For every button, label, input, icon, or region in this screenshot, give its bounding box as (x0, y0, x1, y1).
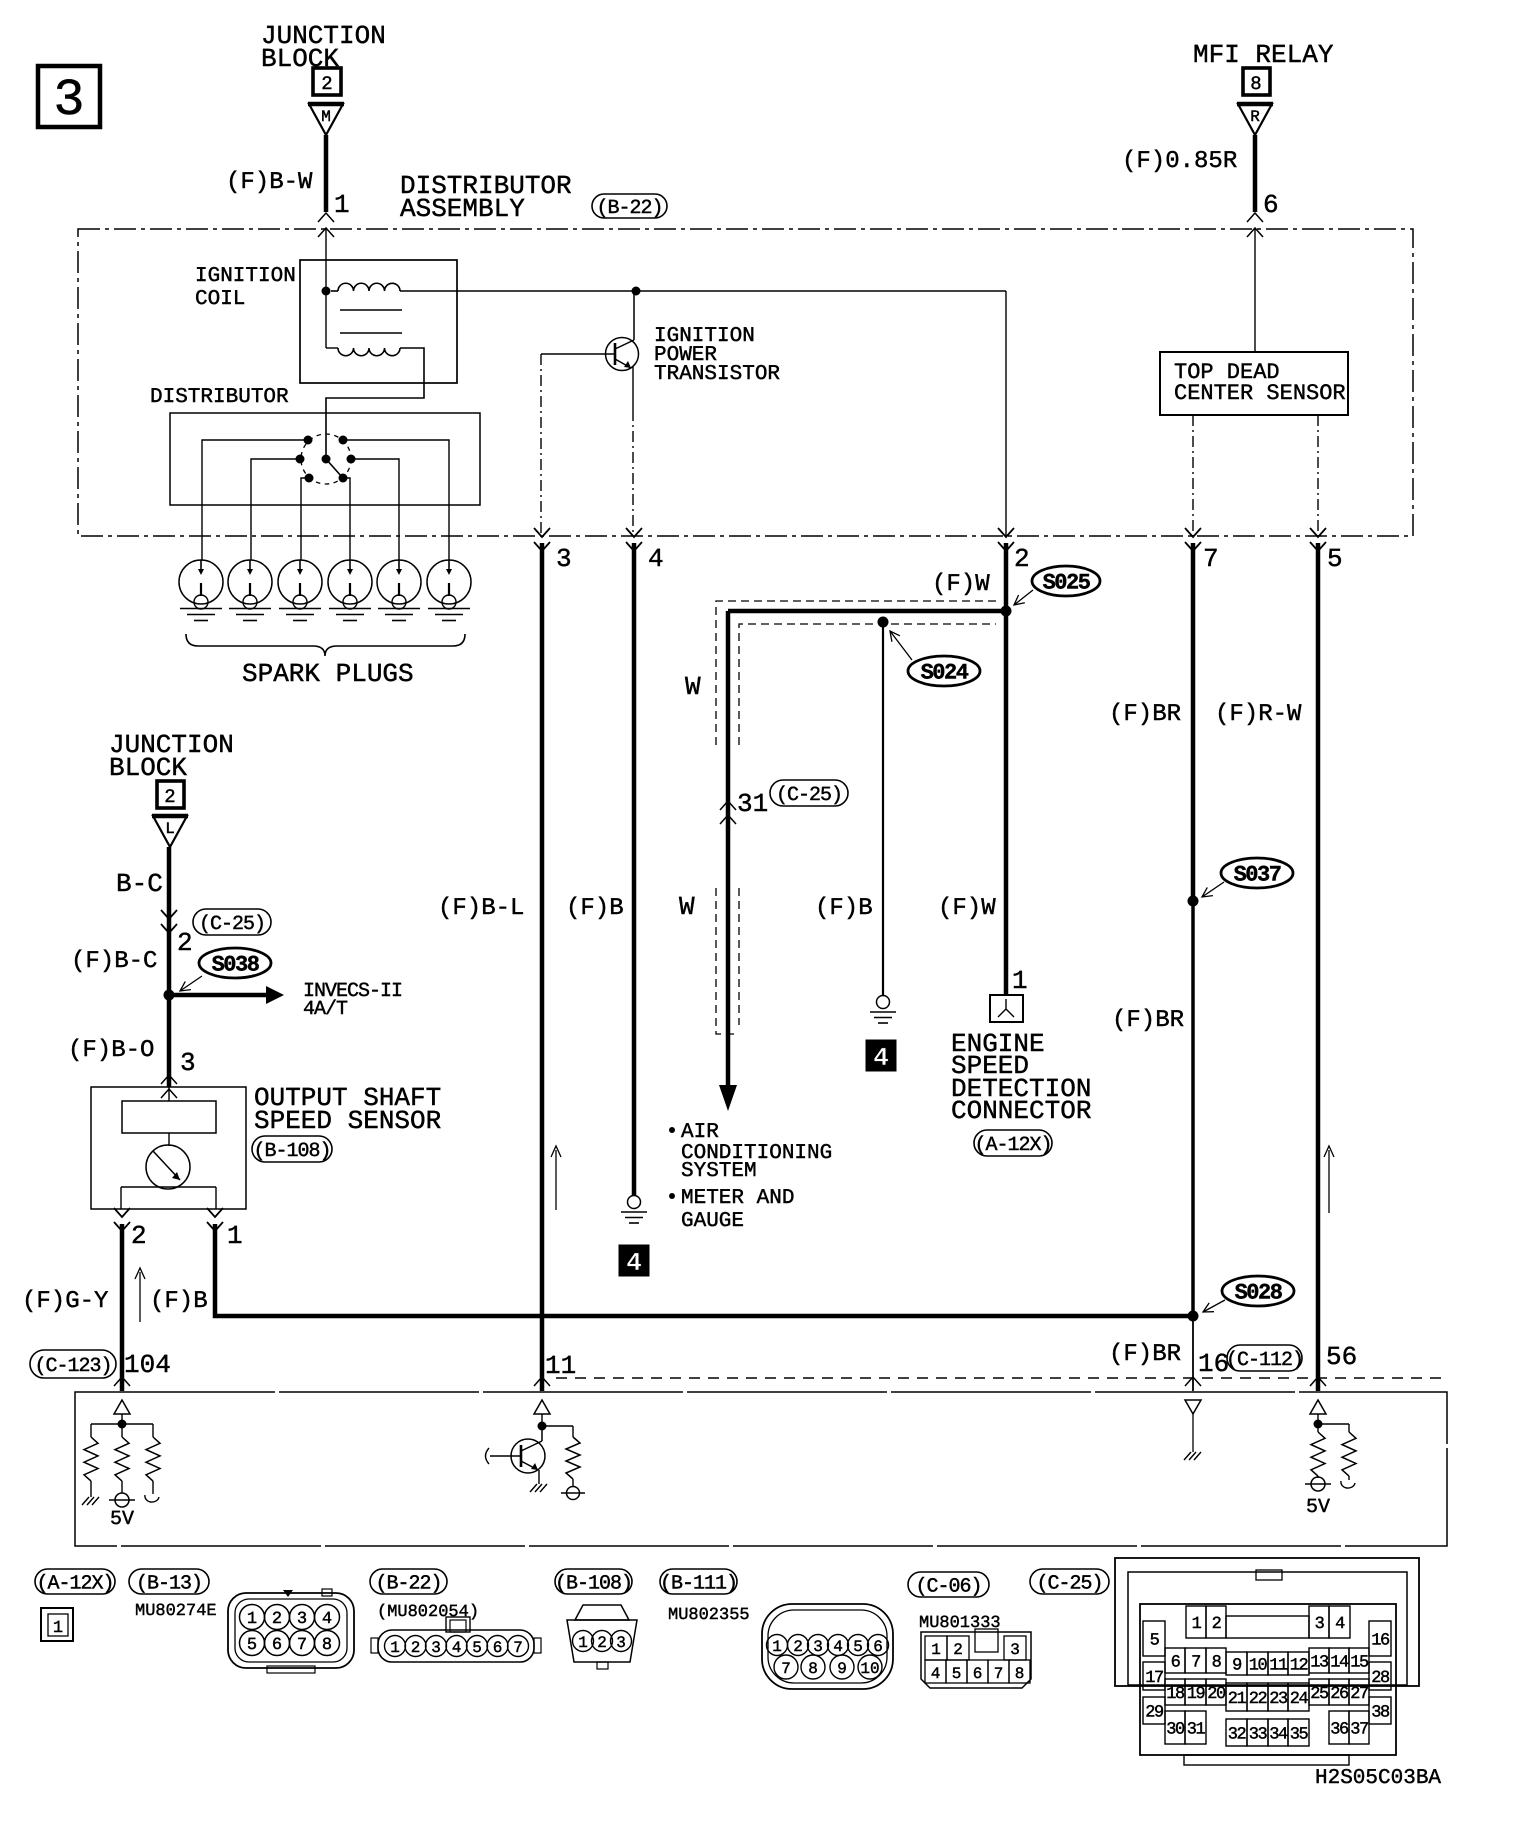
svg-text:CONNECTOR: CONNECTOR (951, 1096, 1091, 1126)
connector label B-108 (555, 1569, 632, 1594)
svg-text:1: 1 (247, 1610, 257, 1629)
svg-text:H2S05C03BA: H2S05C03BA (1315, 1767, 1441, 1790)
ECU pin 16 chevron (1185, 1377, 1201, 1386)
ignition coil box (300, 260, 457, 383)
svg-text:7: 7 (513, 1639, 523, 1657)
ECU ground (transistor emitter) (530, 1484, 537, 1492)
svg-text:BLOCK: BLOCK (109, 753, 187, 783)
svg-text:5: 5 (247, 1636, 257, 1655)
wire (F)B pin4 to ground (632, 543, 637, 1196)
svg-text:8: 8 (322, 1636, 332, 1655)
ECU pin 104 chevron (114, 1377, 130, 1386)
wire S024 to ground (882, 622, 884, 996)
wire (F)BR S028 to ECU pin 16 (1192, 1316, 1194, 1391)
svg-text:32: 32 (1228, 1725, 1246, 1744)
svg-text:(B-22): (B-22) (375, 1572, 441, 1595)
svg-text:33: 33 (1249, 1725, 1268, 1744)
splice S037 (1221, 858, 1293, 888)
svg-text:B-C: B-C (116, 869, 163, 899)
pin 3 crossing at assembly bottom (534, 528, 550, 537)
svg-text:ASSEMBLY: ASSEMBLY (400, 194, 525, 224)
svg-text:(F)0.85R: (F)0.85R (1122, 148, 1237, 175)
svg-text:10: 10 (860, 1660, 879, 1678)
svg-text:22: 22 (1249, 1690, 1267, 1709)
svg-text:DISTRIBUTOR: DISTRIBUTOR (150, 386, 289, 409)
coil primary-secondary link wire (325, 291, 327, 348)
svg-text:12: 12 (1290, 1656, 1308, 1675)
svg-text:3: 3 (180, 1048, 196, 1078)
wire (F)W pin2 to engine speed detection connector (1004, 543, 1009, 995)
distributor cap contact dots (304, 436, 313, 445)
svg-text:16: 16 (1198, 1349, 1229, 1379)
svg-text:2: 2 (321, 73, 332, 95)
svg-text:1: 1 (227, 1221, 243, 1251)
spark plug 2 (228, 560, 272, 604)
ECU pin 16 triangle (1185, 1400, 1201, 1414)
svg-text:IGNITION: IGNITION (195, 265, 296, 288)
connector C-06 drawing (921, 1632, 1031, 1688)
page number box 3 (38, 66, 100, 127)
pin 4 crossing at assembly bottom (626, 528, 642, 537)
svg-text:(B-22): (B-22) (596, 197, 662, 220)
svg-text:(F)B: (F)B (815, 895, 873, 922)
svg-text:SPARK PLUGS: SPARK PLUGS (242, 659, 414, 689)
splice S025 dot (1001, 606, 1012, 617)
svg-text:6: 6 (493, 1639, 503, 1657)
spark plugs brace (186, 634, 465, 656)
svg-text:L: L (165, 820, 175, 838)
svg-text:15: 15 (1350, 1653, 1369, 1672)
ignition coil primary terminal dot (322, 287, 331, 296)
ECU pin104 node dot (118, 1420, 127, 1429)
svg-text:(F)BR: (F)BR (1109, 701, 1181, 728)
svg-text:3: 3 (1010, 1641, 1020, 1659)
svg-text:18: 18 (1166, 1685, 1185, 1704)
svg-text:S038: S038 (212, 952, 260, 977)
wire (F)B-O to output shaft speed sensor (167, 995, 172, 1087)
spark plug wire 6 (343, 440, 449, 560)
wire into ignition coil (325, 229, 327, 288)
svg-text:1: 1 (53, 1619, 63, 1638)
svg-text:GAUGE: GAUGE (681, 1210, 744, 1233)
ignition coil primary winding (331, 290, 338, 292)
svg-text:13: 13 (1310, 1653, 1329, 1672)
svg-text:6: 6 (1171, 1653, 1181, 1672)
MFI relay triangle R (1238, 104, 1272, 135)
svg-text:5: 5 (472, 1639, 482, 1657)
connector C-123 label (30, 1350, 116, 1378)
connector B-13 drawing (228, 1593, 354, 1668)
transistor base wire to pin 3 (541, 353, 607, 355)
svg-text:MU802355: MU802355 (668, 1606, 750, 1625)
svg-text:(F)B-O: (F)B-O (68, 1037, 154, 1064)
5V source circle (pin56 circuit) (1311, 1477, 1325, 1491)
pin 7 crossing at assembly bottom (1185, 528, 1201, 537)
svg-text:CENTER SENSOR: CENTER SENSOR (1174, 381, 1346, 406)
ignition coil core (340, 309, 402, 311)
svg-text:METER AND: METER AND (681, 1187, 794, 1210)
connector A-12X drawing (41, 1608, 73, 1641)
junction block triangle L (153, 816, 187, 847)
svg-text:(F)R-W: (F)R-W (1215, 701, 1302, 728)
ECU pin11 node dot (538, 1422, 547, 1431)
svg-text:2: 2 (131, 1221, 147, 1251)
spark plug wire 3 (301, 478, 309, 560)
wire 6 to TDC sensor (1254, 229, 1256, 352)
svg-text:2: 2 (1212, 1615, 1221, 1634)
svg-text:38: 38 (1371, 1703, 1390, 1722)
svg-text:(A-12X): (A-12X) (974, 1134, 1051, 1157)
svg-text:34: 34 (1269, 1725, 1288, 1744)
sensor pickup circle (168, 1133, 170, 1146)
svg-text:1: 1 (578, 1634, 588, 1652)
up arrow on wire B-L (555, 1150, 557, 1210)
chevrons and pin 31 into C-25 (720, 801, 736, 810)
svg-text:30: 30 (1166, 1720, 1185, 1739)
connector label B-13 (129, 1569, 209, 1594)
svg-text:5: 5 (952, 1665, 962, 1683)
wire (F)B sensor pin1 to splice S028 (215, 1224, 1193, 1316)
svg-text:R: R (1250, 108, 1260, 126)
ECU resistor R1 (84, 1437, 98, 1481)
distributor rotor arm (326, 459, 342, 477)
distributor assembly box B-22 (78, 229, 1413, 536)
svg-text:6: 6 (973, 1665, 983, 1683)
svg-text:24: 24 (1290, 1690, 1309, 1709)
svg-text:56: 56 (1326, 1342, 1357, 1372)
chevrons wire 2 through C-25 (161, 910, 177, 919)
TDC sensor wire to pin 5 (1317, 415, 1319, 536)
svg-text:27: 27 (1350, 1685, 1368, 1704)
wire (F)G-Y sensor pin2 to ECU pin 104 (120, 1224, 125, 1391)
splice S028 dot (1188, 1311, 1199, 1322)
svg-text:S024: S024 (921, 660, 969, 685)
svg-text:17: 17 (1145, 1669, 1163, 1688)
svg-text:1: 1 (772, 1638, 782, 1656)
junction block triangle M (309, 104, 343, 135)
engine speed detection connector A-12X (990, 995, 1023, 1022)
svg-text:(MU802054): (MU802054) (377, 1603, 479, 1622)
svg-text:31: 31 (1187, 1720, 1206, 1739)
svg-text:4: 4 (648, 544, 664, 574)
ECU pin 56 input triangle (1310, 1400, 1326, 1414)
svg-text:(C-123): (C-123) (34, 1355, 111, 1378)
wire coil secondary to distributor rotor (326, 348, 424, 455)
svg-text:26: 26 (1330, 1685, 1349, 1704)
ground ref 4 black box (middle) (866, 1040, 896, 1071)
svg-text:3: 3 (297, 1610, 307, 1629)
svg-text:3: 3 (813, 1638, 823, 1656)
svg-text:6: 6 (1263, 190, 1279, 220)
svg-text:7: 7 (781, 1660, 791, 1678)
svg-text:S028: S028 (1235, 1280, 1283, 1305)
svg-text:(F)W: (F)W (932, 571, 990, 598)
svg-text:2: 2 (793, 1638, 803, 1656)
svg-text:AIR: AIR (681, 1121, 719, 1144)
ECU pin 11 input triangle (534, 1400, 550, 1414)
svg-text:S037: S037 (1234, 862, 1281, 887)
svg-text:(F)B: (F)B (566, 895, 624, 922)
svg-text:8: 8 (808, 1660, 818, 1678)
wire coil primary to transistor collector node (400, 290, 1006, 292)
spark plug 5 (377, 560, 421, 604)
svg-text:3: 3 (431, 1639, 441, 1657)
connector label C-25 (1030, 1569, 1109, 1594)
junction block connector box 2 (313, 68, 341, 95)
splice S025 (1032, 566, 1100, 596)
wire B-C from junction block L (167, 847, 172, 995)
chevrons wire 3 into sensor (161, 1075, 177, 1084)
svg-text:4: 4 (873, 1043, 889, 1073)
5V source circle (pin104 circuit) (115, 1493, 129, 1507)
connector label B-111 (660, 1569, 737, 1594)
ECU box (75, 1392, 1447, 1546)
arrow to air conditioning system (719, 1085, 737, 1111)
svg-text:(F)B-C: (F)B-C (71, 948, 157, 975)
chevrons wire 1 into distributor assembly (318, 213, 334, 222)
ECU resistor R2 (115, 1437, 129, 1481)
svg-text:2: 2 (272, 1610, 282, 1629)
spark plug 3 (278, 560, 322, 604)
connector label A-12X (35, 1569, 115, 1594)
svg-text:(C-25): (C-25) (776, 784, 842, 807)
ECU pin 11 chevron (534, 1377, 550, 1386)
svg-text:M: M (321, 108, 331, 126)
ignition coil secondary winding (338, 348, 400, 356)
svg-text:7: 7 (1191, 1653, 1200, 1672)
svg-text:(B-13): (B-13) (136, 1572, 202, 1595)
distributor box (170, 413, 480, 505)
svg-text:31: 31 (737, 789, 768, 819)
output shaft speed sensor box B-108 (91, 1087, 246, 1209)
svg-text:MFI RELAY: MFI RELAY (1193, 40, 1334, 70)
wire (F)B-W from junction block (324, 135, 329, 212)
splice S037 dot (1188, 896, 1199, 907)
sensor pin 2 crossing (114, 1208, 130, 1217)
ECU resistor R5 (1311, 1432, 1325, 1476)
collector node dot (632, 287, 641, 296)
svg-text:5: 5 (1327, 544, 1343, 574)
svg-text:SPEED SENSOR: SPEED SENSOR (254, 1106, 441, 1136)
svg-text:(F)B-W: (F)B-W (226, 169, 313, 196)
svg-text:6: 6 (272, 1636, 282, 1655)
ECU pin 104 input triangle (114, 1400, 130, 1414)
svg-text:4: 4 (452, 1639, 462, 1657)
distributor rotor circle (301, 434, 351, 484)
svg-text:4: 4 (931, 1665, 941, 1683)
svg-text:(A-12X): (A-12X) (36, 1572, 113, 1595)
svg-text:11: 11 (545, 1351, 576, 1381)
svg-text:3: 3 (616, 1634, 626, 1652)
svg-text:16: 16 (1371, 1631, 1390, 1650)
spark plug wire 2 (251, 459, 300, 560)
ECU resistor R6 (1342, 1432, 1356, 1476)
svg-text:(F)BR: (F)BR (1109, 1341, 1181, 1368)
wire (F)BR S037 to S028 (1191, 901, 1195, 1316)
svg-text:3: 3 (53, 71, 84, 130)
connector label C-06 (908, 1572, 989, 1597)
spark plug wire 4 (343, 478, 350, 560)
spark plug 1 (179, 560, 223, 604)
ECU resistor R4 (566, 1437, 580, 1479)
ground for wire 4 (628, 1196, 641, 1209)
ECU ground (pin104 circuit) (82, 1497, 89, 1505)
svg-text:9: 9 (837, 1660, 847, 1678)
splice S028 (1222, 1276, 1294, 1306)
svg-text:2: 2 (164, 786, 175, 808)
chevrons wire 6 into distributor assembly (1247, 213, 1263, 222)
svg-text:6: 6 (873, 1638, 883, 1656)
thick W wire S025 to air conditioning arrow (728, 609, 1008, 614)
svg-text:TRANSISTOR: TRANSISTOR (654, 363, 780, 386)
svg-text:2: 2 (411, 1639, 421, 1657)
svg-text:2: 2 (1014, 544, 1030, 574)
svg-text:21: 21 (1228, 1690, 1247, 1709)
sensor inner element box (122, 1101, 216, 1133)
svg-text:5V: 5V (110, 1508, 134, 1531)
svg-text:8: 8 (1212, 1653, 1222, 1672)
svg-text:4: 4 (833, 1638, 843, 1656)
svg-text:4A/T: 4A/T (303, 998, 348, 1021)
svg-text:7: 7 (1203, 544, 1219, 574)
ECU ground (pin 16) (1184, 1452, 1191, 1460)
svg-text:25: 25 (1310, 1685, 1329, 1704)
connector B-108 drawing (575, 1605, 629, 1620)
svg-text:(B-108): (B-108) (555, 1572, 632, 1595)
ground ref 4 black box (619, 1245, 649, 1276)
svg-text:(C-112): (C-112) (1226, 1349, 1303, 1372)
connector C-25 drawing (1115, 1558, 1419, 1686)
svg-text:36: 36 (1330, 1720, 1349, 1739)
spark plug wire 1 (202, 440, 308, 560)
sensor pin 1 crossing (207, 1208, 223, 1217)
ECU transistor Q2 (511, 1439, 545, 1473)
arrow to INVECS-II 4A/T (169, 993, 266, 998)
svg-text:35: 35 (1290, 1725, 1309, 1744)
svg-text:20: 20 (1207, 1685, 1226, 1704)
svg-text:S025: S025 (1043, 570, 1091, 595)
wire primary coil to pin 2 (1005, 291, 1007, 536)
5V source circle (pin11 circuit) (567, 1487, 580, 1500)
svg-text:W: W (679, 892, 695, 922)
svg-text:4: 4 (626, 1248, 642, 1278)
spark plug wire 5 (351, 459, 399, 560)
svg-text:28: 28 (1371, 1669, 1390, 1688)
pin 2 crossing at assembly bottom (998, 528, 1014, 537)
up arrow on wire R-W (1328, 1150, 1330, 1213)
air conditioning / meter and gauge labels (669, 1127, 675, 1133)
wire 3 inside assembly (dash-dot) (540, 354, 542, 536)
junction block connector box 2 (left) (157, 781, 184, 808)
connector B-22 drawing (446, 1617, 470, 1632)
ECU pin56 node dot (1314, 1420, 1323, 1429)
svg-text:2: 2 (597, 1634, 607, 1652)
svg-text:9: 9 (1232, 1656, 1242, 1675)
svg-text:10: 10 (1249, 1656, 1268, 1675)
wire (F)0.85R from MFI relay (1253, 135, 1258, 212)
svg-text:1: 1 (1192, 1615, 1202, 1634)
svg-text:MU80274E: MU80274E (135, 1602, 217, 1621)
distributor rotor center dot (322, 455, 331, 464)
wire (F)BR pin7 (1191, 543, 1196, 901)
svg-text:(B-111): (B-111) (660, 1572, 737, 1595)
spark plug 4 (328, 560, 372, 604)
svg-text:104: 104 (124, 1350, 171, 1380)
svg-text:SYSTEM: SYSTEM (681, 1160, 757, 1183)
svg-text:(C-25): (C-25) (1036, 1572, 1102, 1595)
connector label B-22 (370, 1569, 447, 1594)
svg-text:(F)W: (F)W (938, 895, 996, 922)
svg-text:14: 14 (1330, 1653, 1349, 1672)
svg-text:19: 19 (1187, 1685, 1206, 1704)
svg-text:(C-06): (C-06) (915, 1575, 981, 1598)
top dead center sensor box (1160, 352, 1348, 415)
svg-text:7: 7 (994, 1665, 1004, 1683)
ECU resistor R3 (146, 1437, 160, 1481)
TDC sensor wire to pin 7 (1192, 415, 1194, 536)
spark plug 6 (427, 560, 471, 604)
svg-text:29: 29 (1145, 1703, 1164, 1722)
svg-text:5V: 5V (1306, 1496, 1330, 1519)
svg-text:(F)G-Y: (F)G-Y (22, 1288, 108, 1315)
svg-text:(B-108): (B-108) (253, 1140, 330, 1163)
svg-text:23: 23 (1269, 1690, 1288, 1709)
svg-text:3: 3 (1315, 1615, 1325, 1634)
MFI relay connector box 8 (1243, 68, 1270, 95)
connector B-111 drawing (762, 1604, 893, 1689)
svg-text:5: 5 (853, 1638, 863, 1656)
svg-text:(F)B: (F)B (150, 1288, 208, 1315)
svg-text:1: 1 (931, 1641, 941, 1659)
splice S038 (199, 948, 271, 978)
up arrow on wire G-Y (139, 1272, 141, 1322)
splice S038 dot (164, 990, 175, 1001)
svg-text:7: 7 (297, 1636, 307, 1655)
svg-text:W: W (685, 672, 701, 702)
svg-text:5: 5 (1150, 1631, 1160, 1650)
dashed harness channel (lower) (716, 888, 739, 1034)
ground for S024 wire (877, 996, 890, 1009)
pin 5 crossing at assembly bottom (1310, 528, 1326, 537)
svg-text:(C-25): (C-25) (199, 913, 265, 936)
svg-text:37: 37 (1350, 1720, 1368, 1739)
svg-text:(F)BR: (F)BR (1112, 1007, 1184, 1034)
svg-text:(F)B-L: (F)B-L (438, 895, 524, 922)
svg-text:1: 1 (1012, 966, 1028, 996)
svg-text:2: 2 (953, 1641, 963, 1659)
svg-text:1: 1 (390, 1639, 400, 1657)
harness/ECU dashed boundary (556, 1377, 1447, 1379)
svg-text:8: 8 (1250, 73, 1261, 95)
splice S024 dot (878, 617, 889, 628)
svg-text:2: 2 (177, 928, 193, 958)
transistor emitter wire to pin 4 (632, 367, 634, 410)
ECU pin 56 chevron (1310, 1377, 1326, 1386)
wire (F)B-L pin3 to ECU pin 11 (540, 543, 545, 1391)
wire (F)R-W pin5 to ECU pin 56 (1316, 543, 1321, 1391)
svg-text:4: 4 (322, 1610, 332, 1629)
svg-text:11: 11 (1269, 1656, 1288, 1675)
svg-text:1: 1 (334, 190, 350, 220)
svg-text:8: 8 (1015, 1665, 1025, 1683)
svg-text:MU801333: MU801333 (919, 1614, 1001, 1633)
svg-text:4: 4 (1335, 1615, 1345, 1634)
ignition power transistor Q (606, 338, 639, 371)
svg-text:3: 3 (556, 544, 572, 574)
splice S024 (908, 656, 980, 686)
svg-text:COIL: COIL (195, 288, 245, 311)
dashed harness channel (upper) (716, 601, 996, 745)
